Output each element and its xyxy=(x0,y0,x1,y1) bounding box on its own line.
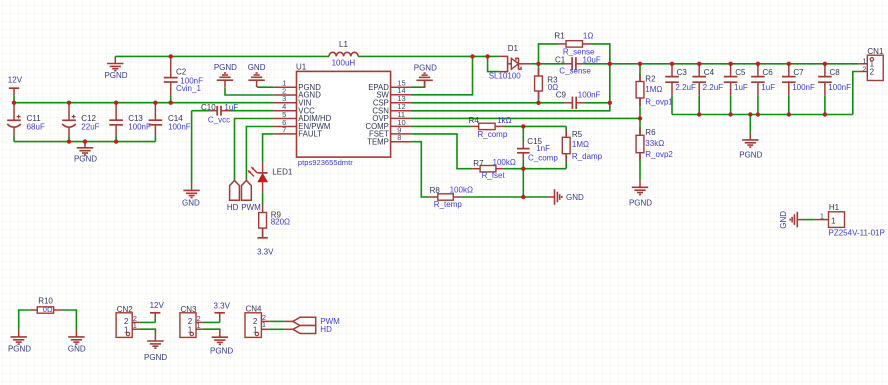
svg-text:HD: HD xyxy=(227,203,239,212)
capacitor C12 22uF xyxy=(62,103,99,142)
capacitor C7 100nF xyxy=(782,64,815,115)
svg-text:1uF: 1uF xyxy=(761,83,775,92)
wire FAULT pin7 to LED1 xyxy=(263,134,274,163)
svg-text:C9: C9 xyxy=(556,90,567,99)
resistor R8 100k R_temp xyxy=(430,186,473,209)
svg-text:1nF: 1nF xyxy=(536,144,550,153)
capacitor C4 2.2uF xyxy=(692,64,723,115)
svg-text:3.3V: 3.3V xyxy=(214,302,231,311)
ground PGND below CN3 xyxy=(210,330,233,355)
svg-text:R_fset: R_fset xyxy=(482,171,506,180)
ground PGND for EPAD xyxy=(414,64,437,88)
svg-text:PGND: PGND xyxy=(144,353,167,362)
svg-text:C_sense: C_sense xyxy=(559,67,591,76)
svg-text:8: 8 xyxy=(397,133,401,142)
wire top ground rail left of L1 xyxy=(115,55,329,57)
capacitor C9 100nF xyxy=(556,90,601,109)
svg-text:ptps923655dmtr: ptps923655dmtr xyxy=(298,158,353,167)
capacitor C8 100nF xyxy=(818,64,851,115)
wire bottom rail to CN1 pin2 xyxy=(853,72,859,115)
op-amp U1 ptps923655dmtr body xyxy=(273,62,411,167)
svg-text:1: 1 xyxy=(197,321,201,330)
wire CSN pin12 riser xyxy=(411,103,610,111)
svg-text:H1: H1 xyxy=(829,203,840,212)
svg-text:R_ovp1: R_ovp1 xyxy=(645,98,673,107)
power flag 12V at CN2 xyxy=(150,301,165,318)
svg-text:C5: C5 xyxy=(735,68,746,77)
svg-text:PGND: PGND xyxy=(210,346,233,355)
ground GND right of R8 xyxy=(548,189,584,205)
wire R6 to PGND xyxy=(639,118,641,180)
wire VIN rail 12V xyxy=(14,102,273,104)
wire R5 riser xyxy=(565,126,567,168)
U1 pin labels left xyxy=(298,83,331,139)
wire TEMP pin8 to R8 xyxy=(411,142,430,197)
svg-text:R_comp: R_comp xyxy=(478,130,508,139)
svg-text:C4: C4 xyxy=(704,68,715,77)
svg-text:SL10100: SL10100 xyxy=(489,72,522,81)
resistor R3 0ohm xyxy=(535,64,559,103)
inductor L1 100uH xyxy=(329,40,358,68)
svg-text:R6: R6 xyxy=(645,128,656,137)
capacitor C10 1uF C_vcc xyxy=(201,103,238,125)
wire GND to pin1 xyxy=(257,86,273,88)
wire R10 left to PGND xyxy=(19,310,30,330)
U1 pin labels right xyxy=(365,83,389,146)
connector H1 PZ254V-11-01P xyxy=(814,203,885,237)
wire R10 right to GND xyxy=(62,310,77,330)
svg-text:CN4: CN4 xyxy=(246,305,263,314)
connector CN4 xyxy=(245,305,269,338)
svg-text:1: 1 xyxy=(831,216,836,225)
resistor R9 820 xyxy=(259,205,290,237)
svg-text:R_damp: R_damp xyxy=(572,152,603,161)
node HD output flag at CN4 xyxy=(284,325,332,334)
ground GND at H1 xyxy=(779,211,804,229)
svg-text:GND: GND xyxy=(68,345,86,354)
wire OVP pin11 to divider xyxy=(411,117,640,119)
svg-text:C10: C10 xyxy=(201,103,216,112)
svg-text:2: 2 xyxy=(870,67,875,76)
svg-text:PGND: PGND xyxy=(739,150,762,159)
ground PGND below cap bank xyxy=(739,133,762,160)
svg-text:R5: R5 xyxy=(572,130,583,139)
node HD port flag xyxy=(227,181,240,212)
svg-text:L1: L1 xyxy=(339,40,348,49)
diode D1 SL10100 schottky xyxy=(489,44,531,80)
power flag 3.3V at CN3 xyxy=(214,302,231,319)
resistor R7 100k R_fset xyxy=(472,158,516,180)
capacitor C2 100nF Cvin_1 xyxy=(164,56,203,102)
wire output caps bottom rail xyxy=(672,114,853,116)
ground PGND below CN2 xyxy=(144,334,167,362)
resistor R1 1ohm R_sense xyxy=(554,32,595,57)
svg-text:PGND: PGND xyxy=(629,198,652,207)
svg-text:U1: U1 xyxy=(296,62,307,71)
wire C1 row segments xyxy=(539,63,610,65)
svg-text:GND: GND xyxy=(182,199,200,208)
svg-text:100nF: 100nF xyxy=(128,122,151,131)
wire COMP pin10 row xyxy=(411,125,566,127)
capacitor C13 100nF xyxy=(109,103,151,142)
svg-text:100nF: 100nF xyxy=(168,122,191,131)
svg-text:100nF: 100nF xyxy=(828,83,851,92)
ground PGND for pin2 xyxy=(214,63,237,87)
wire FSET pin9 to R7 xyxy=(411,134,472,169)
wire R8 to GND xyxy=(461,196,548,198)
svg-text:12V: 12V xyxy=(150,301,165,310)
wire SW pin to top node xyxy=(411,56,473,94)
svg-text:1uF: 1uF xyxy=(734,83,748,92)
wire CN3 pin2 to 3.3V xyxy=(203,318,220,322)
power flag 3.3V below R9 xyxy=(257,228,274,256)
svg-text:R7: R7 xyxy=(473,159,484,168)
wire R1 top branch xyxy=(539,44,610,64)
svg-text:C_comp: C_comp xyxy=(528,153,558,162)
wire CN3 pin1 to PGND xyxy=(203,329,220,330)
wire output rail to CN1 xyxy=(610,63,859,65)
wire PGND to pin2 xyxy=(225,87,273,95)
svg-text:R_ovp2: R_ovp2 xyxy=(645,150,673,159)
svg-text:PGND: PGND xyxy=(8,345,31,354)
capacitor C14 100nF xyxy=(149,103,191,142)
resistor R6 33k R_ovp2 xyxy=(636,127,673,160)
svg-text:GND: GND xyxy=(566,193,584,202)
svg-text:C_vcc: C_vcc xyxy=(208,115,230,124)
svg-text:PGND: PGND xyxy=(214,63,237,72)
wire riser sense node xyxy=(609,64,611,103)
svg-text:R_temp: R_temp xyxy=(434,200,463,209)
svg-text:1: 1 xyxy=(262,320,266,329)
svg-text:R2: R2 xyxy=(645,74,656,83)
ground GND below C10 xyxy=(182,183,200,207)
wire C_comp bottom to temp node xyxy=(522,169,524,197)
svg-text:C8: C8 xyxy=(830,68,841,77)
svg-text:1uF: 1uF xyxy=(224,103,238,112)
resistor R10 0ohm xyxy=(29,296,61,314)
svg-text:CN2: CN2 xyxy=(117,305,134,314)
svg-text:FAULT: FAULT xyxy=(298,130,322,139)
wire EN/PWM pin6 to PWM port xyxy=(246,127,273,181)
wire CN2 pin1 to PGND xyxy=(139,329,155,334)
svg-text:68uF: 68uF xyxy=(27,122,45,131)
wire CN2 pin2 to 12V xyxy=(139,318,155,322)
svg-text:C1: C1 xyxy=(555,55,566,64)
capacitor C15 1nF C_comp xyxy=(517,137,558,162)
svg-text:PWM: PWM xyxy=(241,203,261,212)
capacitor C3 2.2uF xyxy=(665,64,696,115)
svg-text:100nF: 100nF xyxy=(578,90,601,99)
ground PGND below R6 xyxy=(629,180,652,207)
wire CN4 pin2 to PWM port xyxy=(269,320,284,322)
svg-text:C3: C3 xyxy=(677,68,688,77)
ground PGND input rail xyxy=(74,141,97,164)
wire 12V flag stem xyxy=(13,95,15,102)
svg-text:7: 7 xyxy=(282,125,286,134)
ground PGND left of R10 xyxy=(8,330,31,354)
wire LED1 to R9 xyxy=(262,193,264,205)
svg-text:100uH: 100uH xyxy=(332,59,356,68)
wire C10 to GND drop xyxy=(191,111,193,184)
svg-text:1MΩ: 1MΩ xyxy=(645,85,662,94)
svg-text:820Ω: 820Ω xyxy=(271,218,290,227)
wire CSP pin13 to sense node xyxy=(411,102,539,104)
svg-text:1: 1 xyxy=(820,211,824,220)
wire R2 leads xyxy=(639,64,641,119)
svg-text:2: 2 xyxy=(862,64,866,73)
ground PGND top rail xyxy=(104,57,127,80)
svg-text:GND: GND xyxy=(779,211,788,229)
svg-text:C6: C6 xyxy=(763,68,774,77)
svg-text:CN1: CN1 xyxy=(867,47,884,56)
svg-text:PZ254V-11-01P: PZ254V-11-01P xyxy=(829,228,885,237)
svg-text:PGND: PGND xyxy=(74,155,97,164)
node PWM output flag at CN4 xyxy=(284,317,340,326)
svg-text:0Ω: 0Ω xyxy=(43,305,53,314)
capacitor C11 68uF xyxy=(7,103,45,142)
capacitor C1 10uF C_sense xyxy=(555,55,601,75)
wire ADIM/HD pin5 to HD port xyxy=(235,119,274,181)
wire CN4 pin1 to HD port xyxy=(269,328,284,330)
wire EPAD pin15 to PGND xyxy=(411,80,425,87)
svg-text:TEMP: TEMP xyxy=(367,137,389,146)
svg-text:Cvin_1: Cvin_1 xyxy=(176,84,201,93)
svg-text:1kΩ: 1kΩ xyxy=(497,116,511,125)
wire R7 to comp node xyxy=(504,168,566,170)
connector CN2 xyxy=(116,305,139,337)
svg-text:PGND: PGND xyxy=(414,64,437,73)
svg-text:C7: C7 xyxy=(793,68,804,77)
svg-text:R1: R1 xyxy=(554,32,565,41)
svg-text:R8: R8 xyxy=(430,186,441,195)
svg-text:GND: GND xyxy=(248,63,266,72)
wire C10 to VCC pin4 xyxy=(192,110,274,112)
power flag 12V input xyxy=(8,76,23,96)
svg-text:1: 1 xyxy=(133,321,137,330)
resistor R2 1M R_ovp1 xyxy=(636,74,673,107)
ground GND right of R10 xyxy=(68,330,86,354)
connector CN3 xyxy=(180,305,203,337)
svg-text:R4: R4 xyxy=(469,116,480,125)
ground GND for pin1 xyxy=(248,63,266,87)
wire PGND tap on input rail xyxy=(84,141,86,143)
capacitor C5 1uF xyxy=(724,64,748,115)
svg-text:CN3: CN3 xyxy=(181,305,198,314)
wire D1 anode branch xyxy=(488,56,499,71)
svg-text:2.2uF: 2.2uF xyxy=(703,83,724,92)
svg-text:LED1: LED1 xyxy=(272,168,293,177)
resistor R5 1M R_damp xyxy=(562,129,602,161)
U1 pin numbers left 1-7 xyxy=(282,79,286,135)
wire H1 pin to GND xyxy=(804,219,815,221)
svg-text:100nF: 100nF xyxy=(792,83,815,92)
wire bottom rail PGND stem xyxy=(749,115,751,133)
svg-text:100kΩ: 100kΩ xyxy=(450,186,473,195)
wire C15 branch xyxy=(522,126,524,168)
connector CN1 xyxy=(859,47,884,80)
LED LED1 xyxy=(248,162,293,192)
svg-text:1MΩ: 1MΩ xyxy=(572,140,589,149)
svg-text:10uF: 10uF xyxy=(583,55,601,64)
wire top rail L1 to SW/D1 node xyxy=(358,55,499,57)
node PWM port flag xyxy=(241,181,261,212)
svg-text:100kΩ: 100kΩ xyxy=(493,158,516,167)
wire C9 row segments xyxy=(539,102,610,104)
svg-text:22uF: 22uF xyxy=(81,122,99,131)
svg-text:HD: HD xyxy=(320,325,332,334)
svg-text:C2: C2 xyxy=(176,67,187,76)
svg-text:2.2uF: 2.2uF xyxy=(675,83,696,92)
svg-text:3.3V: 3.3V xyxy=(257,247,274,256)
U1 pin numbers right 15-8 xyxy=(397,79,405,143)
svg-text:PGND: PGND xyxy=(104,71,127,80)
wire input cap bottom rail xyxy=(14,103,155,142)
svg-text:33kΩ: 33kΩ xyxy=(645,139,664,148)
capacitor C6 1uF xyxy=(751,64,775,115)
svg-text:D1: D1 xyxy=(508,44,519,53)
svg-text:12V: 12V xyxy=(8,76,23,85)
wire D1 cathode to sense node xyxy=(530,63,538,65)
svg-text:1Ω: 1Ω xyxy=(583,32,593,41)
resistor R4 1k R_comp xyxy=(469,116,512,139)
